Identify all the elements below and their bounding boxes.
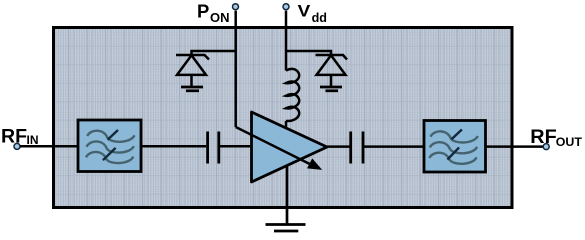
IC body (chip outline box) (54, 28, 513, 208)
svg-text:RF: RF (1, 125, 27, 147)
F1 slash top (108, 130, 118, 140)
label RF_OUT (530, 126, 582, 149)
terminal RF_OUT (543, 144, 549, 150)
svg-text:IN: IN (27, 133, 39, 147)
wire C2 to F2 (364, 145, 424, 148)
label V_dd (298, 2, 327, 25)
svg-text:P: P (197, 1, 209, 22)
label RF_IN (1, 125, 39, 147)
F2 wave top (431, 131, 478, 142)
filter F2 (output band-pass filter) (424, 121, 486, 173)
F1 slash bottom (103, 148, 116, 160)
svg-text:ON: ON (210, 10, 230, 25)
terminal RF_IN (14, 143, 20, 149)
label P_ON (197, 1, 230, 25)
F2 slash bottom (447, 147, 459, 159)
svg-text:RF: RF (530, 126, 556, 148)
inductor L1 (RF choke) (286, 69, 299, 121)
F2 wave mid (430, 142, 477, 153)
filter F1 (input band-pass filter) (78, 120, 141, 172)
F1 wave top (87, 131, 134, 142)
wire F1 to C1 (141, 145, 206, 148)
capacitor C2 (DC block, output) (351, 132, 363, 164)
ground D1 (181, 87, 203, 91)
terminal P_ON (233, 4, 239, 10)
wire V_dd branch to D2 (286, 51, 331, 55)
svg-text:OUT: OUT (556, 135, 583, 149)
gain control arrow through amp (236, 127, 321, 169)
wire P_ON down (234, 11, 237, 127)
terminal V_dd (283, 4, 289, 10)
wire RF_IN to box (20, 145, 78, 148)
wire F2 to RF_OUT (486, 145, 544, 148)
F2 wave bottom (429, 153, 476, 164)
svg-text:V: V (298, 2, 311, 20)
capacitor C1 (DC block, input) (208, 132, 219, 164)
F1 wave mid (87, 141, 134, 152)
zener diode D2 (Vdd ESD clamp) (316, 55, 348, 87)
wire D1 to P_ON line (192, 51, 236, 55)
F1 wave bottom (86, 152, 133, 163)
svg-text:dd: dd (312, 11, 327, 25)
ground D2 (320, 87, 342, 91)
zener diode D1 (P_ON ESD clamp) (176, 55, 209, 87)
F2 slash top (452, 130, 462, 140)
wire amp to C2 (327, 145, 350, 148)
wire V_dd down to coil (285, 11, 288, 71)
wire C1 to amplifier (220, 145, 252, 148)
ground main (amp ground) (266, 166, 306, 232)
wire coil to amp (285, 121, 288, 129)
amplifier U1 (variable gain amp) (252, 112, 328, 182)
